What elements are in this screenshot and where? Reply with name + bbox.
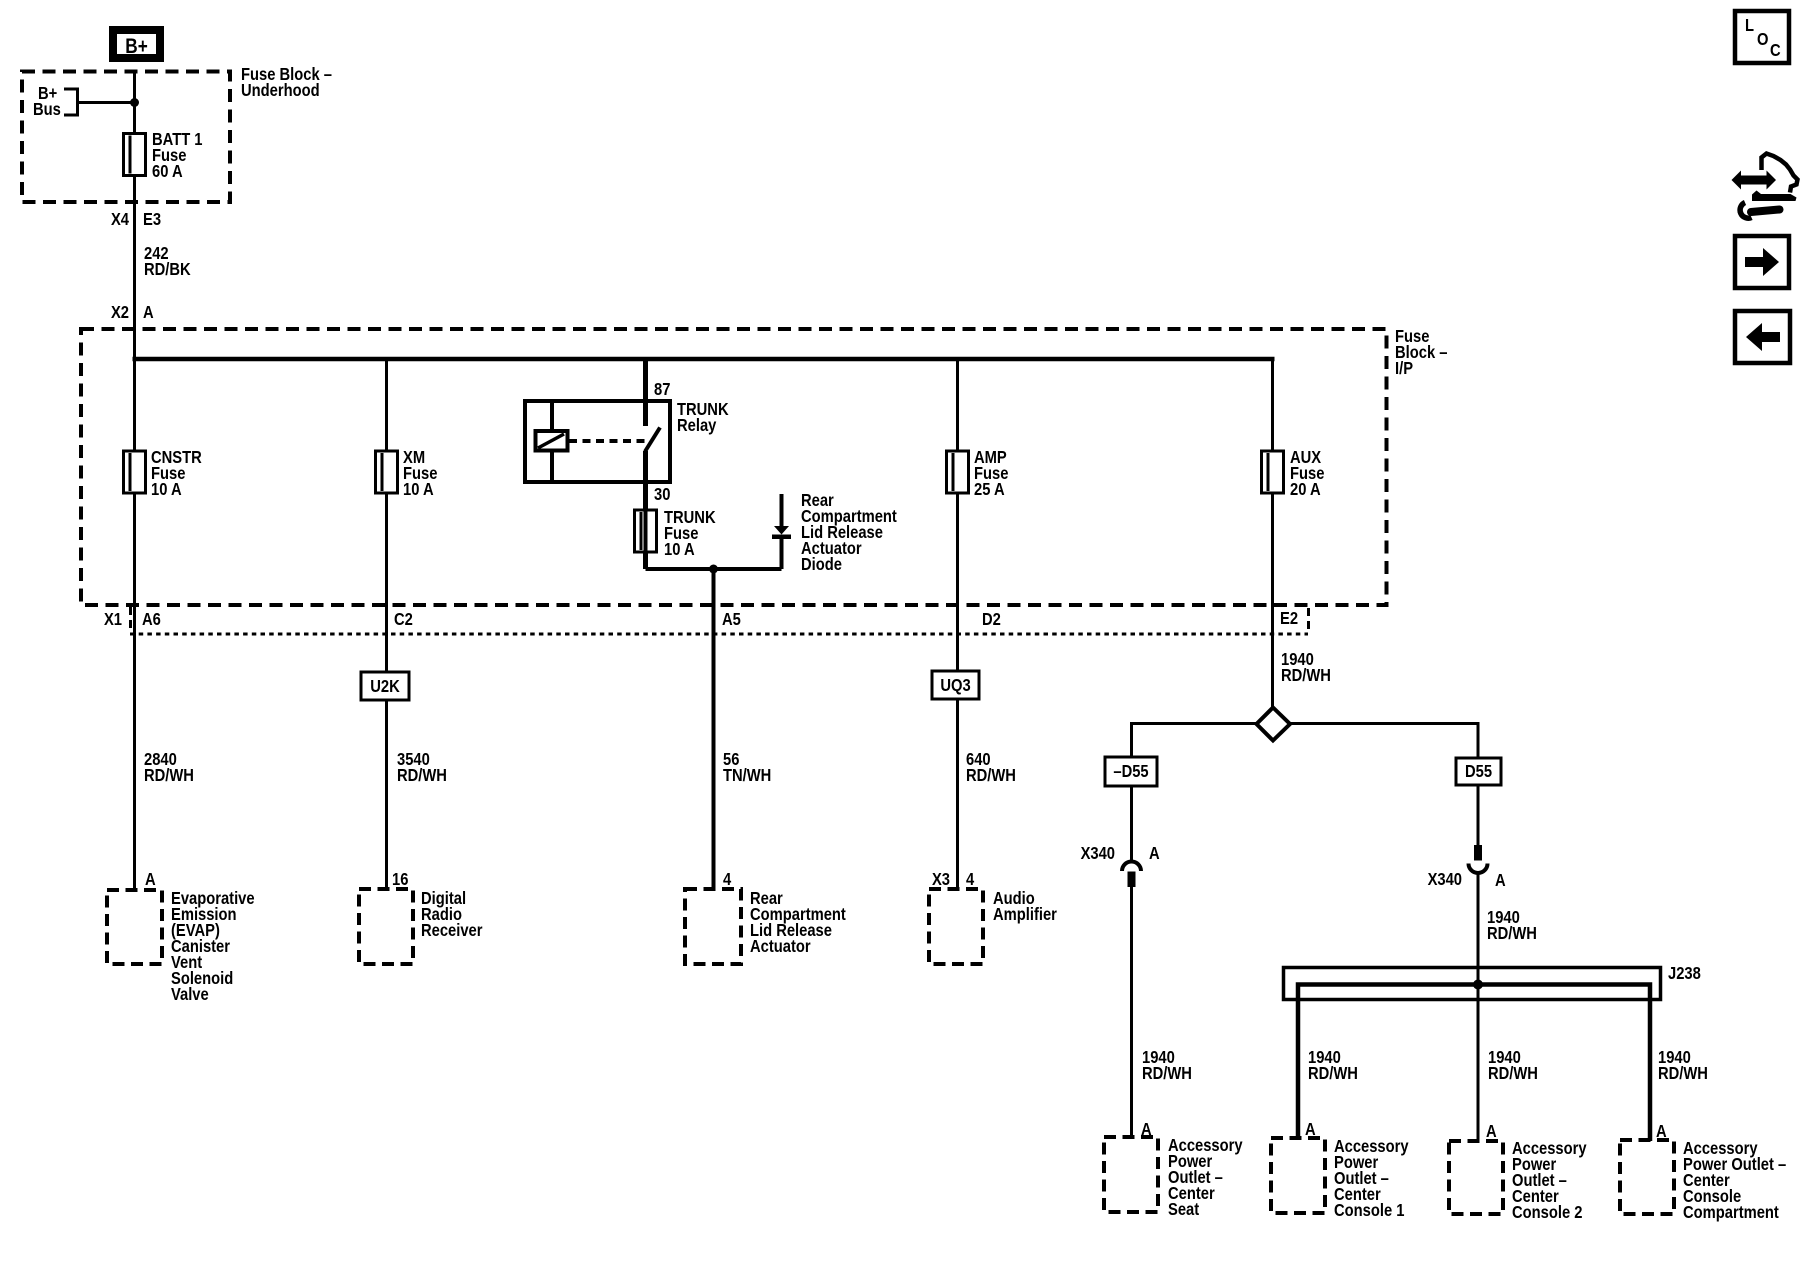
wire below -D55	[1130, 786, 1133, 860]
wire labels 1940 RD/WH (four outlet feeds)	[1142, 1048, 1708, 1084]
svg-text:Receiver: Receiver	[421, 921, 483, 941]
svg-text:A: A	[145, 870, 156, 890]
svg-text:RD/WH: RD/WH	[1488, 1064, 1538, 1084]
wire from X340 to center seat outlet	[1130, 887, 1133, 1137]
terminal label 4 (actuator)	[723, 870, 732, 890]
connector pins X4 / E3	[111, 210, 161, 230]
svg-text:Actuator: Actuator	[750, 937, 811, 957]
svg-text:Console 1: Console 1	[1334, 1201, 1404, 1221]
terminal label A (EVAP)	[145, 870, 156, 890]
connector box D55	[1456, 758, 1501, 785]
svg-text:A: A	[143, 303, 154, 323]
pin label 30	[654, 485, 670, 505]
wire label 242 RD/BK	[144, 244, 191, 280]
wire below D55	[1477, 785, 1480, 846]
svg-text:Console 2: Console 2	[1512, 1203, 1582, 1223]
component: EVAP canister vent solenoid valve	[107, 889, 255, 1005]
node B+ Bus (bracket symbol + label)	[33, 84, 78, 120]
connector box -D55	[1105, 757, 1157, 786]
svg-text:–D55: –D55	[1113, 762, 1148, 782]
svg-text:D55: D55	[1465, 762, 1492, 782]
fuse BATT 1 60 A	[124, 130, 203, 182]
wire from B+ Bus bracket to main feed	[78, 101, 135, 104]
terminal labels A (four outlets)	[1141, 1120, 1667, 1142]
junction at A5 branch	[709, 565, 718, 574]
svg-text:Seat: Seat	[1168, 1200, 1200, 1220]
component: Accessory Power Outlet - Center Console 1	[1271, 1137, 1409, 1221]
svg-text:C: C	[1770, 41, 1781, 61]
junction block J238	[1284, 964, 1701, 1141]
svg-text:16: 16	[392, 870, 408, 890]
svg-text:Valve: Valve	[171, 985, 209, 1005]
in-line connector X340 pin A (left)	[1081, 844, 1160, 887]
svg-text:Compartment: Compartment	[1683, 1203, 1779, 1223]
svg-text:RD/BK: RD/BK	[144, 260, 191, 280]
wire: splice to D55 branch	[1289, 724, 1479, 759]
svg-text:I/P: I/P	[1395, 359, 1413, 379]
svg-text:E3: E3	[143, 210, 161, 230]
svg-text:20 A: 20 A	[1290, 480, 1321, 500]
wire: AMP fuse branch	[956, 359, 959, 889]
connector pin labels A6 C2 A5 D2 E2	[142, 609, 1298, 630]
svg-text:10 A: 10 A	[151, 480, 182, 500]
svg-text:25 A: 25 A	[974, 480, 1005, 500]
svg-text:Diode: Diode	[801, 555, 842, 575]
bus bar inside I/P fuse block	[133, 357, 1275, 362]
svg-text:RD/WH: RD/WH	[1308, 1064, 1358, 1084]
option code box U2K	[361, 672, 409, 700]
wire label 2840 RD/WH	[144, 750, 194, 786]
svg-text:X340: X340	[1428, 870, 1462, 890]
wire: horizontal feed to diode and A5 branch	[646, 567, 782, 571]
svg-text:O: O	[1757, 30, 1769, 50]
wire: splice to -D55 branch	[1132, 724, 1259, 758]
svg-text:87: 87	[654, 380, 670, 400]
LOC legend box	[1735, 11, 1789, 63]
fuse CNSTR 10 A	[124, 448, 202, 500]
wire label 1940 RD/WH (D55 branch)	[1487, 908, 1537, 944]
junction at B+ bus tap	[130, 98, 139, 107]
svg-text:Underhood: Underhood	[241, 81, 320, 101]
label: Fuse Block - I/P	[1395, 327, 1447, 379]
battery positive terminal B+	[113, 30, 160, 59]
component: Audio Amplifier	[929, 889, 1057, 964]
component: Accessory Power Outlet - Center Console 2	[1449, 1139, 1587, 1223]
svg-text:C2: C2	[394, 610, 413, 630]
component: Accessory Power Outlet - Center Seat	[1104, 1136, 1243, 1220]
svg-text:J238: J238	[1668, 964, 1701, 984]
svg-text:RD/WH: RD/WH	[1281, 666, 1331, 686]
label: Fuse Block - Underhood	[241, 65, 332, 101]
svg-text:L: L	[1745, 16, 1754, 36]
svg-text:D2: D2	[982, 610, 1001, 630]
pin label 87	[654, 380, 670, 400]
svg-text:E2: E2	[1280, 609, 1298, 629]
svg-text:Amplifier: Amplifier	[993, 905, 1057, 925]
svg-text:TN/WH: TN/WH	[723, 766, 771, 786]
svg-text:X340: X340	[1081, 844, 1115, 864]
terminal label 16 (radio)	[392, 870, 408, 890]
svg-text:RD/WH: RD/WH	[1142, 1064, 1192, 1084]
svg-text:RD/WH: RD/WH	[1658, 1064, 1708, 1084]
wire from X340 down through J238 to console 2 outlet	[1477, 872, 1480, 1141]
service manual icon (arrows, car, wrench)	[1732, 154, 1798, 219]
svg-text:B+: B+	[125, 36, 147, 59]
wire label 3540 RD/WH	[397, 750, 447, 786]
diode: Rear Compartment Lid Release Actuator Diode	[772, 491, 897, 575]
connector pins X2 / A	[111, 303, 154, 323]
navigation arrow box (back)	[1735, 311, 1790, 363]
wire: relay 30 output	[643, 451, 648, 569]
svg-text:A: A	[1149, 844, 1160, 864]
connector pins X3 / 4 (amplifier)	[932, 870, 975, 890]
option code box UQ3	[932, 671, 979, 699]
fuse AUX 20 A	[1262, 448, 1325, 500]
wire label 640 RD/WH	[966, 750, 1016, 786]
svg-text:X2: X2	[111, 303, 129, 323]
fuse block underhood dashed box	[22, 72, 230, 203]
svg-text:RD/WH: RD/WH	[1487, 924, 1537, 944]
svg-text:X1: X1	[104, 610, 122, 630]
wire: relay 87 feed from bus	[643, 359, 648, 426]
svg-text:X4: X4	[111, 210, 130, 230]
fuse block I/P dashed box	[81, 329, 1387, 605]
component: Digital Radio Receiver	[359, 889, 483, 964]
navigation arrow box (forward)	[1735, 236, 1789, 288]
wire: A5 branch down to actuator	[712, 569, 716, 889]
svg-text:4: 4	[966, 870, 975, 890]
svg-text:U2K: U2K	[370, 677, 400, 697]
fuse AMP 25 A	[947, 448, 1009, 500]
svg-text:60 A: 60 A	[152, 162, 183, 182]
svg-text:A6: A6	[142, 610, 161, 630]
svg-text:A: A	[1486, 1122, 1497, 1142]
in-line connector X340 pin A (right)	[1428, 845, 1506, 890]
svg-text:RD/WH: RD/WH	[144, 766, 194, 786]
junction dot in J238	[1473, 980, 1483, 990]
fuse XM 10 A	[376, 448, 438, 500]
relay TRUNK Relay	[525, 400, 729, 482]
component: Rear Compartment Lid Release Actuator	[685, 889, 846, 964]
wire: main B+ feed down from B+ terminal through underhood block	[133, 70, 136, 890]
svg-text:A: A	[1495, 871, 1506, 891]
splice diamond S	[1257, 708, 1291, 741]
svg-text:4: 4	[723, 870, 732, 890]
svg-text:Bus: Bus	[33, 100, 61, 120]
svg-text:A5: A5	[722, 610, 741, 630]
svg-text:UQ3: UQ3	[940, 676, 970, 696]
wire label 1940 RD/WH (E2 branch)	[1281, 650, 1331, 686]
component: Accessory Power Outlet - Center Console Compartment	[1620, 1139, 1786, 1223]
svg-text:RD/WH: RD/WH	[397, 766, 447, 786]
wire: XM fuse branch	[385, 359, 388, 889]
svg-text:10 A: 10 A	[403, 480, 434, 500]
svg-text:10 A: 10 A	[664, 540, 695, 560]
wire label 56 TN/WH	[723, 750, 771, 786]
svg-text:RD/WH: RD/WH	[966, 766, 1016, 786]
wire: AUX fuse branch	[1271, 357, 1274, 707]
svg-text:X3: X3	[932, 870, 950, 890]
svg-text:30: 30	[654, 485, 670, 505]
svg-text:Relay: Relay	[677, 416, 717, 436]
connector strip X1 (fine dotted line + end marks)	[104, 607, 1309, 634]
fuse TRUNK 10 A	[635, 508, 716, 560]
